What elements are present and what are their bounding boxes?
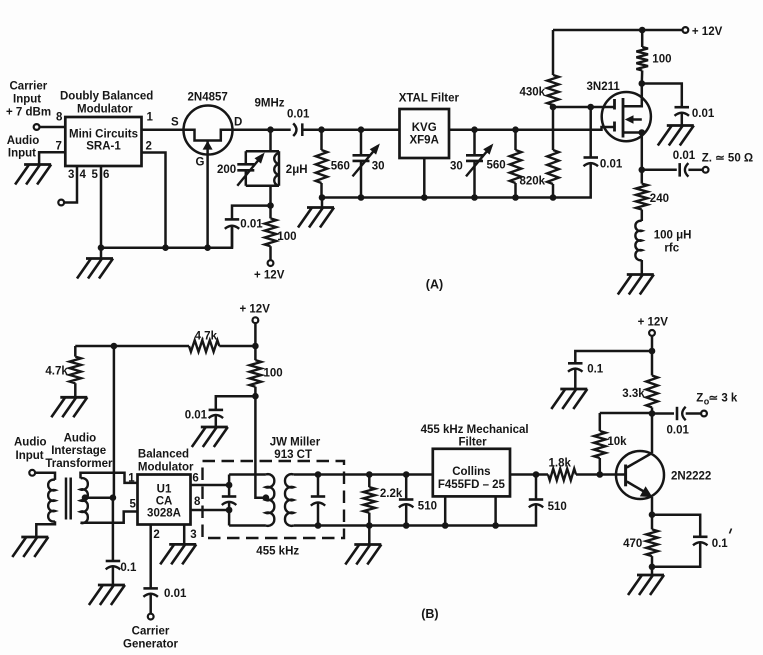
junction source-substrate [639, 129, 646, 136]
junction emitter node [649, 511, 656, 518]
label: 3.3k [622, 388, 645, 400]
wire C3 to xtal filter [302, 128, 399, 131]
svg-text:0.01: 0.01 [185, 410, 208, 422]
svg-text:2N4857: 2N4857 [188, 92, 228, 104]
resistor R4 100 drain decoupling [636, 30, 648, 84]
ground bus A ground [298, 198, 334, 228]
svg-text:3N211: 3N211 [587, 81, 621, 93]
svg-text:Audio: Audio [7, 135, 40, 147]
junction bus-xtal [421, 194, 428, 201]
wire tank loop top [246, 150, 279, 153]
wire T1 primary to ground [36, 521, 55, 537]
svg-text:0.1: 0.1 [120, 562, 137, 574]
transformer T1 secondary coil [81, 478, 88, 523]
junction T2 sec cap bottom [315, 522, 322, 529]
junction T2 sec cap top [315, 471, 322, 478]
junction bus-560-2 [512, 194, 519, 201]
wire to bypass C16 [575, 351, 652, 363]
wire +12V B2 down [651, 336, 654, 351]
label: G [196, 157, 205, 169]
wire T2 secondary bottom [293, 506, 536, 526]
label: 30 C4 [372, 161, 385, 173]
op-amp U1 CA3028A box [138, 475, 191, 525]
junction FL2 lead1 [442, 522, 449, 529]
svg-text:Carrier: Carrier [10, 81, 48, 93]
junction pin8 tank [226, 507, 233, 514]
svg-text:Modulator: Modulator [77, 104, 133, 116]
svg-text:1: 1 [147, 112, 154, 124]
label: +12V rail A [692, 26, 723, 38]
wire output A [642, 169, 677, 172]
svg-text:510: 510 [548, 501, 567, 513]
label: 0.01 C3 [287, 109, 310, 121]
transistor Q1 2N4857 JFET body [184, 106, 233, 155]
ground source network [618, 275, 654, 295]
label: 2N2222 [671, 471, 711, 483]
junction 560-1 top [318, 126, 325, 133]
wire 10k to collector node [600, 412, 652, 415]
ground pin3 [160, 544, 196, 564]
node: +12V terminal B1 [253, 317, 259, 323]
svg-text:(A): (A) [426, 278, 443, 292]
label: Doubly Balanced Modulator [60, 91, 153, 116]
capacitor C11 0.01 carrier coupling [143, 588, 158, 596]
svg-text:470: 470 [623, 538, 642, 550]
capacitor C12 tank cap left [222, 475, 237, 526]
wire C2 to SRA bus [231, 226, 234, 248]
label: pin 1 [147, 112, 154, 124]
node: carrier null terminal [58, 200, 64, 206]
node: +12V terminal A source [268, 260, 274, 266]
capacitor C5 30pF variable [466, 130, 493, 198]
svg-text:560: 560 [487, 160, 506, 172]
svg-text:G: G [196, 157, 205, 169]
junction T2 center tap [263, 494, 270, 501]
junction varcap30-2 top [471, 126, 478, 133]
label: 10k [607, 436, 627, 448]
transformer T1 primary coil [48, 480, 55, 522]
label: 240 [650, 193, 669, 205]
svg-text:510: 510 [418, 501, 437, 513]
wire C8 to output terminal [688, 169, 702, 172]
svg-text:Doubly Balanced: Doubly Balanced [60, 91, 153, 103]
capacitor C15 510 [529, 475, 543, 508]
capacitor C2 0.01 [225, 219, 239, 228]
svg-text:Mini Circuits: Mini Circuits [69, 129, 138, 141]
label: 100 R10 [264, 368, 283, 380]
svg-text:3: 3 [68, 169, 74, 181]
resistor R7 240 [636, 170, 648, 221]
wire FL2 ground lead 2 [494, 496, 497, 525]
label: 0.01 C9 [185, 410, 208, 422]
label: 4.7k R9 [45, 366, 68, 378]
resistor R8 4.7k feed [189, 340, 219, 352]
Q2 source stub [623, 131, 642, 134]
junction 510-1 top [403, 471, 410, 478]
Q3 emitter lead [627, 482, 653, 498]
svg-text:+ 12V: + 12V [638, 317, 669, 329]
label: pin 8 [56, 112, 63, 124]
label: 560 R3 [487, 160, 506, 172]
junction +12V node B2 [649, 348, 656, 355]
svg-text:8: 8 [194, 496, 201, 508]
wire L2 to ground [641, 260, 644, 275]
svg-text:rfc: rfc [664, 243, 679, 255]
svg-text:≃ 3 k: ≃ 3 k [709, 393, 738, 405]
label: Audio Input [7, 135, 40, 160]
svg-text:560: 560 [331, 161, 350, 173]
svg-text:Generator: Generator [123, 639, 178, 651]
svg-text:+ 12V: + 12V [692, 26, 723, 38]
svg-text:1: 1 [128, 473, 135, 485]
resistor R1 100 source resistor [265, 206, 277, 261]
wire bias to center tap [113, 346, 116, 498]
svg-text:U1: U1 [157, 484, 172, 496]
svg-text:5: 5 [92, 169, 99, 181]
junction gate-bus [204, 244, 211, 251]
wire output B [652, 412, 674, 415]
wire T1 center tap [85, 496, 113, 499]
svg-text:3.3k: 3.3k [622, 388, 645, 400]
wire tank bottom feed [269, 186, 272, 206]
ground C16 [551, 389, 587, 409]
capacitor C4 30pF variable [353, 130, 380, 198]
wire FL2 output [510, 473, 548, 476]
svg-text:100: 100 [652, 54, 671, 66]
svg-text:455 kHz: 455 kHz [256, 546, 299, 558]
svg-text:CA: CA [156, 496, 173, 508]
junction pin6 tank [226, 482, 233, 489]
svg-text:2: 2 [153, 529, 159, 541]
ground emitter [628, 575, 664, 595]
label: S [171, 117, 179, 129]
svg-text:455 kHz Mechanical: 455 kHz Mechanical [421, 424, 529, 436]
node: output terminal B [701, 411, 707, 417]
label: D [234, 117, 242, 129]
label: pins 3 4 5 6 [68, 169, 109, 181]
Q2 channel bar [622, 98, 625, 138]
label: 0.01 C8 [673, 150, 696, 162]
resistor R13 10k feedback [594, 413, 606, 475]
label: 1.8k [549, 458, 572, 470]
wire FL2 ground lead 1 [444, 496, 447, 525]
wire 1.8k to base node [576, 473, 626, 476]
label: 820k [520, 176, 546, 188]
svg-text:Balanced: Balanced [138, 449, 189, 461]
node: carrier generator terminal [148, 614, 154, 620]
filter T2 JW Miller 913CT dashed enclosure [203, 461, 345, 538]
wire U1 pin 8 to tank [191, 509, 230, 512]
label: pin 1 U1 [128, 473, 135, 485]
svg-text:3028A: 3028A [147, 508, 181, 520]
svg-text:Input: Input [16, 450, 44, 462]
wire to bypass cap C2 [232, 206, 271, 220]
wire emitter bypass bottom [652, 543, 700, 567]
junction gate2-cap [587, 104, 594, 111]
label: (A) [426, 278, 443, 292]
node: RF output terminal A [703, 167, 709, 173]
ground SRA-1 bus [77, 248, 113, 279]
svg-text:Z: Z [696, 393, 703, 405]
wire ground bus of SRA-1 [101, 226, 232, 248]
op-amp U-A Mini Circuits SRA-1 doubly balanced modulator box [65, 117, 141, 166]
label: 3N211 [587, 81, 621, 93]
junction drain-bypass [639, 80, 646, 87]
junction emitter ground node [649, 564, 656, 571]
svg-text:9MHz: 9MHz [255, 98, 285, 110]
svg-text:Transformer: Transformer [45, 458, 113, 470]
label: +12V B2 [638, 317, 669, 329]
Q2 substrate arrow [625, 115, 642, 124]
svg-text:100: 100 [277, 231, 296, 243]
svg-text:100 μH: 100 μH [654, 230, 692, 242]
label: +12V B1 [240, 304, 271, 316]
capacitor C14 510 [399, 475, 414, 526]
svg-text:+ 12V: + 12V [240, 304, 271, 316]
wire T2 primary top [229, 473, 266, 476]
label: Zo = 3k [696, 393, 738, 407]
wire T1 secondary top to U1 pin 1 [81, 473, 138, 483]
svg-text:S: S [171, 117, 179, 129]
label: 470 [623, 538, 642, 550]
wire U-A pin 2 to ground bus [142, 153, 166, 248]
junction 2.2k top [366, 471, 373, 478]
label: 0.01 C7 [692, 108, 715, 120]
resistor R14 3.3k collector load [646, 351, 658, 414]
capacitor C13 tank cap right [311, 475, 325, 526]
svg-text:+ 12V: + 12V [254, 270, 285, 282]
svg-text:D: D [234, 117, 242, 129]
wire audio input to T1 [35, 473, 55, 480]
svg-text:4: 4 [80, 169, 87, 181]
wire to ground B [651, 567, 654, 575]
svg-text:430k: 430k [520, 87, 546, 99]
resistor R5 430k [547, 30, 559, 107]
label: (B) [421, 607, 438, 621]
wire U1 pin 2 to carrier input [149, 525, 152, 589]
label: XTAL Filter [399, 93, 460, 105]
ground audio input side [15, 165, 51, 185]
inductor L2 100uH rfc [635, 221, 641, 260]
svg-text:0.01: 0.01 [600, 159, 623, 171]
svg-text:4.7k: 4.7k [45, 366, 68, 378]
Q2 drain stub [623, 84, 642, 107]
svg-text:JW Miller: JW Miller [270, 437, 321, 449]
label: 2.2k [380, 488, 403, 500]
label: U1 CA 3028A [147, 484, 181, 520]
node: audio input terminal B [29, 470, 35, 476]
svg-text:Interstage: Interstage [51, 445, 106, 457]
label: 9MHz [255, 98, 285, 110]
label: pin 3 U1 [190, 529, 196, 541]
filter FL1 XTAL filter box [400, 109, 450, 158]
svg-text:820k: 820k [520, 176, 546, 188]
junction drain/tank [267, 126, 274, 133]
svg-text:Z. ≃ 50 Ω: Z. ≃ 50 Ω [702, 153, 753, 165]
junction FL2 out 510-2 [533, 471, 540, 478]
svg-text:30: 30 [372, 161, 385, 173]
label: 455 kHz Mechanical Filter [421, 424, 529, 449]
junction bias-transformer tap [111, 343, 118, 350]
label: 30 C5 [450, 161, 463, 173]
wire C7 to ground [681, 113, 684, 125]
svg-text:F455FD – 25: F455FD – 25 [438, 479, 506, 491]
svg-text:8: 8 [56, 112, 63, 124]
junction R10 bottom [252, 393, 259, 400]
svg-text:2N2222: 2N2222 [671, 471, 711, 483]
junction center tap bias [110, 494, 117, 501]
svg-text:0.1: 0.1 [712, 538, 729, 550]
capacitor C3 0.01 coupling [293, 123, 302, 136]
junction 560-2 top [512, 126, 519, 133]
svg-text:4.7k: 4.7k [195, 331, 218, 343]
resistor R9 4.7k to ground [70, 346, 82, 397]
label: 200 [217, 164, 236, 176]
svg-text:100: 100 [264, 368, 283, 380]
filter FL2 Collins mechanical filter box [433, 449, 510, 497]
wire C16 to ground [574, 369, 577, 389]
wire carrier input to U-A pin 8 [40, 126, 66, 129]
label: 2uH [286, 164, 308, 176]
capacitor C9 0.01 bypass [209, 410, 224, 418]
wire U-A pins 5/6 down to ground bus [100, 166, 103, 248]
resistor R3 560 [510, 130, 522, 198]
transistor Q2 3N211 MOSFET body [602, 92, 651, 141]
svg-text:6: 6 [103, 169, 109, 181]
svg-text:0.01: 0.01 [240, 219, 263, 231]
wire source down [641, 133, 644, 170]
junction bus-560-1 [319, 194, 326, 201]
transformer T1 core [66, 478, 71, 520]
junction at pins5/6 and bus [98, 244, 105, 251]
svg-text:Filter: Filter [459, 437, 488, 449]
Q2 gate bars [613, 99, 616, 132]
junction 430k-820k-gate2 [550, 104, 557, 111]
capacitor C16 0.1 bypass [568, 363, 583, 371]
label: KVG XF9A [409, 122, 438, 147]
wire C10 to ground [112, 567, 115, 585]
svg-text:913 CT: 913 CT [274, 449, 312, 461]
label: Carrier Generator [123, 626, 178, 651]
junction T1 center tap [82, 494, 89, 501]
svg-text:SRA-1: SRA-1 [86, 141, 121, 153]
svg-text:240: 240 [650, 193, 669, 205]
wire xtal filter ground lead [423, 158, 426, 198]
label: Audio Interstage Transformer [45, 433, 113, 471]
svg-text:Carrier: Carrier [132, 626, 170, 638]
label: pin 5 U1 [130, 499, 137, 511]
label: 0.01 C6 [600, 159, 623, 171]
wire emitter bypass top [652, 515, 700, 537]
svg-text:0.1: 0.1 [587, 364, 604, 376]
Q1 gate arrow [203, 141, 213, 150]
svg-text:10k: 10k [607, 436, 627, 448]
junction bus-varcap2 [471, 194, 478, 201]
svg-text:2μH: 2μH [286, 164, 308, 176]
resistor R12 1.8k [548, 469, 576, 481]
node: +12V terminal B2 [649, 330, 655, 336]
label: Audio Input B [14, 437, 47, 463]
label: Collins F455FD-25 [438, 466, 506, 491]
label: 0.1 C10 [120, 562, 137, 574]
label: JW Miller 913 CT [270, 437, 321, 462]
ground drain bypass [658, 126, 694, 146]
wire ground bus A [322, 164, 591, 198]
svg-text:Audio: Audio [64, 433, 97, 445]
svg-text:0.01: 0.01 [673, 150, 696, 162]
label: Z = 50 ohm [702, 153, 753, 165]
svg-text:(B): (B) [421, 607, 438, 621]
junction tank bottom [267, 202, 274, 209]
svg-text:2: 2 [146, 141, 152, 153]
junction source output node [639, 167, 646, 174]
capacitor C8 0.01 output coupling [680, 163, 689, 177]
resistor R10 100 [250, 346, 262, 396]
label: 560 R2 [331, 161, 350, 173]
wire Q1 gate down to ground bus [206, 141, 209, 248]
svg-text:KVG: KVG [412, 122, 437, 134]
label: 430k [520, 87, 546, 99]
wire T1 secondary bottom to U1 pin 5 [81, 512, 138, 523]
wire U-A pin 7 to ground [39, 152, 65, 164]
junction base-10k [597, 471, 604, 478]
node: carrier input terminal [34, 124, 40, 130]
wire 2.2k to ground [368, 526, 371, 545]
junction bus-820k [550, 194, 557, 201]
capacitor C18 0.1 emitter bypass [693, 537, 708, 546]
transformer T2 primary coil [266, 474, 274, 526]
ground T1 primary [12, 537, 48, 557]
wire bias rail B [75, 345, 255, 348]
Q3 collector lead [627, 453, 652, 468]
transistor Q3 2N2222 body [616, 451, 664, 499]
svg-text:30: 30 [450, 161, 463, 173]
svg-text:XF9A: XF9A [409, 135, 438, 147]
wire drain to tank node [233, 128, 291, 131]
label: pin 8 U1 [194, 496, 201, 508]
wire to bypass C9 [216, 396, 256, 410]
resistor R15 470 emitter [646, 515, 658, 567]
wire T2 secondary top [293, 473, 432, 476]
wire xtal out to Q2 gate1 [449, 127, 615, 130]
node: +12V terminal A rail [683, 27, 689, 33]
label: Balanced Modulator [138, 449, 194, 474]
label: 455 kHz [256, 546, 299, 558]
junction FL2 lead2 [492, 522, 499, 529]
wire emitter down [651, 497, 654, 515]
svg-text:5: 5 [130, 499, 137, 511]
label: 100 [277, 231, 296, 243]
ground output bus B [345, 545, 381, 565]
svg-text:Collins: Collins [452, 466, 490, 478]
label: 510 C15 [548, 501, 567, 513]
resistor R11 2.2k [364, 475, 376, 526]
resistor R6 820k [547, 107, 559, 198]
svg-text:+ 7 dBm: + 7 dBm [6, 107, 51, 119]
label: pin 7 [56, 141, 62, 153]
label: 0.1 C16 [587, 364, 604, 376]
inductor L1 2uH coil [274, 151, 279, 186]
capacitor C17 0.01 output coupling [677, 407, 686, 420]
junction pin2-bus [162, 244, 169, 251]
svg-text:3: 3 [190, 529, 196, 541]
Q3 base bar [624, 465, 627, 487]
wire C17 to terminal [686, 412, 701, 415]
label: Carrier Input +7 dBm [6, 81, 51, 119]
svg-text:0.01: 0.01 [667, 425, 690, 437]
label: 0.01 [240, 219, 263, 231]
svg-text:Audio: Audio [14, 437, 47, 449]
